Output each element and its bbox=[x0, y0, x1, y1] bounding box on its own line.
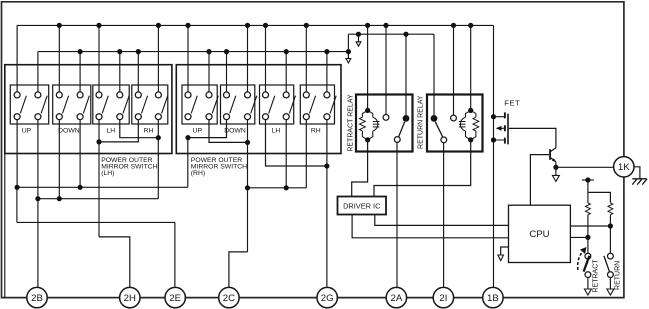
wire: LH(RH) right lower contact down to D2 bbox=[285, 120, 287, 188]
svg-text:RETURN RELAY: RETURN RELAY bbox=[418, 95, 425, 149]
svg-text:UP: UP bbox=[22, 127, 32, 134]
wire: bus A right leg down through FET taps to connector 1B bbox=[493, 25, 495, 287]
contact: RH (RH) lower circle x=326.9 bbox=[324, 114, 330, 120]
junction: bus A / RH sw2 left bbox=[304, 23, 309, 28]
wire: bus B drop to UP sw2 right contact bbox=[208, 52, 210, 93]
svg-text:RETURN: RETURN bbox=[614, 261, 621, 290]
junction: bus A / LH sw1 left bbox=[96, 23, 101, 28]
contact: UP (RH) upper circle x=209.0 bbox=[206, 92, 212, 98]
resistor R2 (RETURN pull-up) bbox=[608, 203, 613, 215]
contact: DOWN (LH) lower circle x=80.1 bbox=[77, 114, 83, 120]
arrow: open triangle below bus B end bbox=[346, 59, 351, 63]
relay coil: RETURN RELAY coil+resistor parallel bbox=[466, 110, 471, 117]
wire: CPU top pin to transistor base bbox=[530, 155, 549, 206]
wire: bus B drop to LH sw2 right contact bbox=[285, 52, 287, 93]
svg-text:FET: FET bbox=[504, 99, 520, 108]
contact: UP (LH) upper circle x=37.9 bbox=[35, 92, 41, 98]
wire: bus A drop to UP sw1 left contact bbox=[16, 25, 18, 92]
wire: node line D1 (y=187) bbox=[17, 186, 188, 188]
contact: LH (LH) upper circle x=99.0 bbox=[96, 92, 102, 98]
wire: bus A drop to DOWN sw2 right contact bbox=[247, 25, 249, 92]
arrow: open triangle below RETURN switch bbox=[607, 289, 614, 295]
wire: CPU right pin 2 to RETRACT divider node bbox=[570, 236, 588, 238]
wire: UP(RH) right jog to DOWN(RH) right leg bbox=[209, 120, 248, 143]
connector 2I bbox=[433, 287, 453, 307]
switch blade: UP (LH) x=17.1 bbox=[20, 96, 26, 114]
junction: bus B / RH sw1 left bbox=[136, 49, 141, 54]
svg-text:2I: 2I bbox=[439, 293, 447, 304]
switch blade: DOWN (RH) x=226.5 bbox=[230, 96, 236, 114]
junction: bus B / RH sw2 right bbox=[324, 49, 329, 54]
switch blade: LH (RH) x=265.5 bbox=[269, 96, 275, 114]
junction: LH(LH) left / RH jog bbox=[96, 139, 101, 144]
wire: RH(RH) left lower contact down to D2 bbox=[305, 120, 307, 188]
switch blade: DOWN (RH) x=247.5 bbox=[251, 96, 257, 114]
resistor R1 (RETRACT pull-up) bbox=[586, 203, 591, 215]
junction: RETRACT coil bottom bbox=[365, 137, 370, 142]
svg-text:2H: 2H bbox=[124, 293, 136, 304]
contact: UP (RH) lower circle x=188.0 bbox=[185, 114, 191, 120]
junction: bus A / RETURN NO contact bbox=[451, 23, 456, 28]
wire: R2 bottom through CPU node to RETURN switch bbox=[609, 215, 611, 253]
switch RH (RH) sub-box bbox=[300, 85, 334, 124]
wire: bus A drop to RETURN coil bbox=[470, 25, 472, 110]
switch blade: RH (LH) x=138.3 bbox=[142, 96, 148, 114]
connector 2B bbox=[27, 287, 47, 307]
svg-text:2E: 2E bbox=[169, 293, 181, 304]
svg-text:LH: LH bbox=[106, 127, 115, 134]
wire: LH(LH) right lower contact jog to RH(LH) right bbox=[120, 120, 159, 138]
svg-text:2A: 2A bbox=[391, 293, 403, 304]
contact: RH (LH) lower circle x=138.3 bbox=[135, 114, 141, 120]
svg-text:DOWN: DOWN bbox=[58, 127, 80, 134]
switch blade: RH (RH) x=326.9 bbox=[330, 96, 336, 114]
contact: RH (LH) upper circle x=138.3 bbox=[135, 92, 141, 98]
wire: CPU right pin 1 to RETURN divider node bbox=[570, 225, 610, 227]
wire: bus A drop to RH sw2 left contact bbox=[305, 25, 307, 92]
wire: DOWN(LH) right lower contact down to D1 bbox=[79, 120, 81, 188]
junction: bus A / RH sw1 right bbox=[156, 23, 161, 28]
junction: D2 / LH(RH) right bbox=[284, 185, 289, 190]
wire: stub from line C dot down to arrow bbox=[358, 34, 360, 41]
wire: RETRACT common down to connector 2A bbox=[396, 142, 398, 287]
wire: RETURN common down to connector 2I bbox=[443, 143, 445, 288]
wire: UP(LH) right lower contact down to line E bbox=[37, 120, 39, 199]
contact: LH (RH) lower circle x=265.5 bbox=[263, 114, 269, 120]
ground: chassis ground symbol bbox=[632, 179, 647, 185]
wire: RETRACT coil top lead (from bus A) bbox=[367, 95, 369, 111]
contact: RH (RH) upper circle x=326.9 bbox=[324, 92, 330, 98]
svg-text:RH: RH bbox=[144, 127, 154, 134]
wire: bus A drop to RETRACT NO contact bbox=[385, 25, 387, 114]
junction: emitter node bbox=[553, 165, 558, 170]
contact: UP (LH) upper circle x=17.1 bbox=[14, 92, 20, 98]
junction: RETRACT coil top bbox=[365, 108, 370, 113]
junction: bus B / DOWN sw2 left bbox=[224, 49, 229, 54]
wire: LH(RH) left lower contact jog to 2G line bbox=[266, 120, 327, 166]
actuation arrow: dashed arrow on RETRACT switch bbox=[578, 252, 583, 270]
wire: bus B drop to DOWN sw2 left contact bbox=[226, 52, 228, 93]
wire: DRIVER IC pin to CPU left pin 1 bbox=[375, 215, 509, 226]
wire: bus A drop to RETURN NO contact bbox=[453, 25, 455, 115]
contact: DOWN (RH) lower circle x=247.5 bbox=[245, 114, 251, 120]
wire: bus B drop to DOWN sw1 right contact bbox=[79, 52, 81, 93]
wire: DOWN(LH) left lower contact down to line E bbox=[58, 120, 60, 199]
wire: bus B horizontal (y=52) bbox=[38, 51, 348, 53]
arrow: open triangle below CPU ground lead bbox=[498, 255, 504, 261]
wire: RH(RH) right lower contact down to connector 2G bbox=[326, 120, 328, 288]
relay box: RETURN RELAY bbox=[427, 95, 483, 152]
wire: emitter down to node bbox=[555, 162, 557, 168]
junction: FET drain tap bbox=[491, 114, 496, 119]
block: POWER OUTER MIRROR SWITCH (RH) outline bbox=[176, 65, 341, 154]
arrow: open triangle below RETRACT switch bbox=[584, 289, 591, 295]
connector 1B bbox=[483, 287, 503, 307]
wire: LH(LH) left jog to RH(LH) left lower contact bbox=[99, 120, 138, 142]
contact: DOWN (LH) upper circle x=59.3 bbox=[56, 92, 62, 98]
wire: D1 right leg up to UP(RH) junction bbox=[187, 138, 189, 188]
junction: RETURN coil top bbox=[468, 108, 473, 113]
wire: bus A drop to RH sw1 right contact bbox=[157, 25, 159, 92]
contact: RETRACT relay NO (open circle) bbox=[383, 115, 389, 121]
wire: LH(LH) left lower contact down toward 2H bbox=[98, 120, 100, 237]
wire: CPU ground lead bbox=[501, 247, 509, 255]
wire: R1 bottom through CPU node to RETRACT switch bbox=[587, 215, 589, 253]
contact: RETRACT relay NC (filled) bbox=[403, 115, 410, 122]
junction: bus A / UP sw2 left bbox=[185, 23, 190, 28]
wire: jog to connector 2H bbox=[99, 237, 130, 288]
junction: UP(RH) left lower contact jog bbox=[185, 135, 190, 140]
svg-text:1K: 1K bbox=[618, 162, 630, 173]
junction: line C / RETRACT NC drop bbox=[403, 32, 408, 37]
wire: D1 left leg down to line F bbox=[16, 187, 18, 222]
junction: FET source tap bbox=[491, 137, 496, 142]
contact: RETURN relay NO (open circle) bbox=[451, 115, 457, 121]
switch blade: RETURN (open) bbox=[604, 256, 610, 272]
svg-text:RETRACT: RETRACT bbox=[592, 259, 599, 293]
wire: 1K to chassis ground bbox=[634, 167, 640, 179]
switch RH (LH) sub-box bbox=[132, 85, 168, 124]
switch blade: RH (LH) x=158.4 bbox=[162, 96, 168, 114]
switch DOWN (LH) sub-box bbox=[53, 85, 91, 124]
wire: bus B drop to UP sw1 right contact bbox=[37, 52, 39, 93]
switch blade: RH (RH) x=306.3 bbox=[310, 96, 316, 114]
junction: bus B / UP sw2 right bbox=[206, 49, 211, 54]
wire: line C drop to RETRACT NC contact bbox=[405, 34, 407, 115]
svg-text:1B: 1B bbox=[487, 293, 499, 304]
svg-text:CPU: CPU bbox=[529, 229, 549, 240]
wire: DRIVER IC pin to CPU left pin 2 bbox=[352, 215, 508, 238]
wire: RH(LH) right lower contact down to line E bbox=[157, 120, 159, 199]
svg-text:UP: UP bbox=[193, 127, 203, 134]
relay blade: RETRACT armature bbox=[399, 122, 405, 137]
contact: UP (LH) lower circle x=17.1 bbox=[14, 114, 20, 120]
switch: RETURN position switch bbox=[608, 253, 614, 259]
contact: DOWN (RH) lower circle x=226.5 bbox=[224, 114, 230, 120]
IC U1: DRIVER IC box bbox=[338, 197, 387, 215]
junction: bus A / DOWN sw2 right bbox=[245, 23, 250, 28]
switch LH (RH) sub-box bbox=[260, 85, 294, 124]
wire: bus B drop to RH sw2 right contact bbox=[326, 52, 328, 93]
wire: feed down to resistor R1 bbox=[587, 180, 589, 203]
connector 2G bbox=[317, 287, 337, 307]
wire: branch to resistor R2 bbox=[588, 192, 611, 202]
svg-text:2C: 2C bbox=[223, 293, 235, 304]
wire: RETURN coil bottom to DRIVER IC pin bbox=[374, 140, 471, 197]
switch blade: UP (RH) x=209.0 bbox=[212, 96, 218, 114]
connector 2C bbox=[219, 287, 239, 307]
contact: LH (LH) lower circle x=99.0 bbox=[96, 114, 102, 120]
contact: RH (RH) lower circle x=306.3 bbox=[303, 114, 309, 120]
contact: UP (RH) lower circle x=209.0 bbox=[206, 114, 212, 120]
connector 2H bbox=[120, 287, 140, 307]
relay box: RETRACT RELAY bbox=[356, 95, 413, 152]
wire: bus A drop to UP sw2 left contact bbox=[187, 25, 189, 92]
wire: bus A drop to LH sw2 left contact bbox=[265, 25, 267, 92]
junction: RETURN coil bottom bbox=[468, 137, 473, 142]
block: POWER OUTER MIRROR SWITCH (LH) outline bbox=[5, 65, 172, 154]
junction: bus B / LH sw1 right bbox=[117, 49, 122, 54]
wire: DOWN(RH) right lower contact down toward 2C bbox=[247, 120, 249, 252]
svg-text:RH: RH bbox=[311, 127, 321, 134]
junction: DOWN(RH) right leg / UP jog bbox=[245, 140, 250, 145]
wire: line F (y=222) to 2E bbox=[17, 221, 175, 223]
junction: R1 leg / CPU right pin 2 bbox=[585, 235, 590, 240]
wire: emitter node down to arrow bbox=[555, 167, 557, 176]
wire: FET gate lead to transistor collector bbox=[509, 128, 556, 147]
connector 2E bbox=[165, 287, 185, 307]
junction: bus A / RETRACT coil feed bbox=[365, 23, 370, 28]
junction: line E / 2B drop bbox=[35, 196, 40, 201]
transistor Q2: NPN driver bbox=[550, 148, 556, 162]
wire: bus A horizontal (y=25) bbox=[17, 24, 494, 26]
contact: LH (RH) lower circle x=286.2 bbox=[283, 114, 289, 120]
contact: LH (RH) upper circle x=265.5 bbox=[263, 92, 269, 98]
junction: line E / DOWN(LH) left bbox=[57, 196, 62, 201]
contact: RH (LH) upper circle x=158.4 bbox=[155, 92, 161, 98]
switch blade: RETRACT (closed, heavy) bbox=[584, 256, 590, 272]
switch blade: LH (LH) x=119.8 bbox=[123, 96, 129, 114]
junction: D1 / DOWN(LH) right bbox=[78, 185, 83, 190]
connector 1K bbox=[614, 157, 634, 177]
switch DOWN (RH) sub-box bbox=[221, 85, 255, 124]
wire: line E drop to connector 2B bbox=[37, 199, 39, 288]
junction: bus A / DOWN sw1 left bbox=[57, 23, 62, 28]
svg-text:DRIVER IC: DRIVER IC bbox=[343, 201, 381, 210]
wire: tap bar feeding pull-up resistors bbox=[582, 179, 594, 181]
wire: node line E (y=199) bbox=[38, 198, 158, 200]
junction: bus B / LH sw2 right bbox=[284, 49, 289, 54]
svg-text:RETRACT RELAY: RETRACT RELAY bbox=[348, 94, 355, 152]
wire: RETRACT coil bottom to DRIVER IC pin bbox=[352, 140, 368, 197]
junction: bus A / RETURN coil feed bbox=[468, 23, 473, 28]
junction: tap bar / resistor feed bbox=[585, 177, 590, 182]
wire: node line D2 (y=188) bbox=[248, 187, 307, 189]
switch UP (RH) sub-box bbox=[182, 85, 217, 124]
wire: line F drop to connector 2E bbox=[174, 222, 176, 287]
junction: 2G line / LH(RH) jog bbox=[324, 163, 329, 168]
contact: DOWN (RH) upper circle x=247.5 bbox=[245, 92, 251, 98]
contact: RETRACT relay common (pivot) bbox=[394, 137, 400, 143]
wire: bus A drop to DOWN sw1 left contact bbox=[58, 25, 60, 92]
contact: RETURN relay common (pivot) bbox=[441, 137, 447, 143]
switch: RETRACT position switch bbox=[585, 253, 591, 259]
transistor Q1: FET symbol bbox=[494, 112, 509, 144]
junction: line C / arrow stub bbox=[356, 32, 361, 37]
wire: emitter node to connector 1K bbox=[556, 166, 614, 168]
wire: bus A drop to RETRACT coil bbox=[367, 25, 369, 94]
svg-text:DOWN: DOWN bbox=[224, 127, 246, 134]
contact: DOWN (RH) upper circle x=226.5 bbox=[224, 92, 230, 98]
contact: DOWN (LH) upper circle x=80.1 bbox=[77, 92, 83, 98]
wire: line C right leg down to RETURN NC contact bbox=[433, 34, 435, 115]
junction: RH(LH) right leg / LH(LH) jog bbox=[156, 135, 161, 140]
switch LH (LH) sub-box bbox=[93, 85, 129, 124]
contact: DOWN (LH) lower circle x=59.3 bbox=[56, 114, 62, 120]
junction: R2 leg / CPU right pin 1 bbox=[608, 223, 613, 228]
junction: D1 / UP(LH) left / F leg bbox=[15, 185, 20, 190]
relay coil: RETRACT RELAY coil+resistor parallel bbox=[362, 110, 367, 117]
junction: D2 / 2C leg bbox=[245, 185, 250, 190]
svg-text:LH: LH bbox=[272, 127, 281, 134]
wire: line C left leg down through bus B to arrow bbox=[347, 34, 349, 58]
wire: left block case lead down to bottom rail bbox=[4, 154, 6, 298]
wire: RETRACT switch down to arrow bbox=[587, 278, 589, 290]
contact: RETURN relay NC (filled) bbox=[431, 115, 438, 122]
switch blade: DOWN (LH) x=59.3 bbox=[63, 96, 69, 114]
arrow: open triangle below line C stub bbox=[356, 42, 361, 46]
wire: UP(LH) left lower contact down to node D1 bbox=[16, 120, 18, 188]
switch blade: UP (LH) x=37.9 bbox=[41, 96, 47, 114]
junction: bus A / LH sw2 left bbox=[263, 23, 268, 28]
wire: UP(RH) left jog to DOWN(RH) left lower contact bbox=[188, 120, 227, 138]
junction: bus B / DOWN sw1 right bbox=[78, 49, 83, 54]
contact: LH (LH) lower circle x=119.8 bbox=[117, 114, 123, 120]
contact: UP (LH) lower circle x=37.9 bbox=[35, 114, 41, 120]
relay blade: RETURN armature bbox=[435, 122, 442, 137]
svg-text:2G: 2G bbox=[321, 293, 334, 304]
junction: bus B end / line C leg bbox=[346, 49, 351, 54]
wire: bus B drop to LH sw1 right contact bbox=[119, 52, 121, 93]
switch blade: LH (RH) x=286.2 bbox=[289, 96, 295, 114]
switch blade: LH (LH) x=99.0 bbox=[102, 96, 108, 114]
contact: LH (RH) upper circle x=286.2 bbox=[283, 92, 289, 98]
junction: bus A / RETRACT NO contact bbox=[383, 23, 388, 28]
contact: LH (LH) upper circle x=119.8 bbox=[117, 92, 123, 98]
wire: jog to connector 2C bbox=[229, 252, 248, 288]
contact: UP (RH) upper circle x=188.0 bbox=[185, 92, 191, 98]
wire: RETURN switch down to arrow bbox=[609, 278, 611, 290]
IC U2: CPU box bbox=[509, 205, 571, 262]
wire: line C horizontal (y=34, relay NC feed) bbox=[348, 33, 434, 35]
contact: RH (RH) upper circle x=306.3 bbox=[303, 92, 309, 98]
wire: bus B drop to RH sw1 left contact bbox=[137, 52, 139, 93]
switch blade: DOWN (LH) x=80.1 bbox=[83, 96, 89, 114]
arrow: open triangle below emitter node bbox=[552, 175, 559, 181]
wire: bus A drop to LH sw1 left contact bbox=[98, 25, 100, 92]
contact: RH (LH) lower circle x=158.4 bbox=[155, 114, 161, 120]
connector 2A bbox=[386, 287, 406, 307]
switch UP (LH) sub-box bbox=[10, 85, 48, 124]
switch blade: UP (RH) x=188.0 bbox=[191, 96, 197, 114]
svg-text:2B: 2B bbox=[31, 293, 43, 304]
